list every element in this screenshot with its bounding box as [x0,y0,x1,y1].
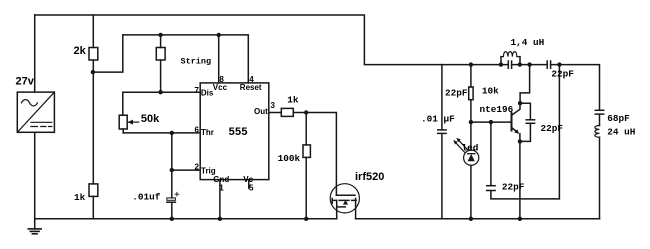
svg-text:5: 5 [249,183,254,192]
svg-text:3: 3 [271,101,276,110]
svg-text:8: 8 [219,75,224,84]
svg-text:nte196: nte196 [480,104,514,115]
svg-text:22pF: 22pF [502,182,525,193]
svg-text:22pF: 22pF [551,69,574,80]
svg-text:4: 4 [249,75,254,84]
svg-text:50k: 50k [141,113,160,125]
svg-text:68pF: 68pF [607,113,630,124]
svg-text:6: 6 [194,126,199,135]
svg-text:22pF: 22pF [445,87,468,98]
svg-text:2: 2 [194,162,199,171]
svg-text:1: 1 [219,183,224,192]
svg-text:1k: 1k [74,192,86,203]
svg-text:27v: 27v [16,76,35,88]
svg-text:Thr: Thr [201,128,214,137]
svg-text:String: String [181,56,212,66]
svg-text:Out: Out [254,107,268,116]
svg-text:7: 7 [194,86,199,95]
svg-text:1,4 uH: 1,4 uH [511,37,545,48]
svg-text:.01uf: .01uf [132,192,161,203]
svg-text:2k: 2k [74,45,87,57]
svg-text:irf520: irf520 [355,171,384,183]
svg-text:555: 555 [229,126,248,138]
svg-text:24 uH: 24 uH [607,127,635,138]
svg-text:led: led [462,143,479,154]
svg-text:.01 µF: .01 µF [421,113,455,124]
svg-text:100k: 100k [278,153,301,164]
svg-text:Reset: Reset [240,83,262,92]
svg-text:1k: 1k [287,95,299,106]
svg-text:Dis: Dis [201,88,214,97]
svg-text:22pF: 22pF [541,123,564,134]
svg-text:Vcc: Vcc [213,83,228,92]
svg-text:10k: 10k [482,86,499,97]
